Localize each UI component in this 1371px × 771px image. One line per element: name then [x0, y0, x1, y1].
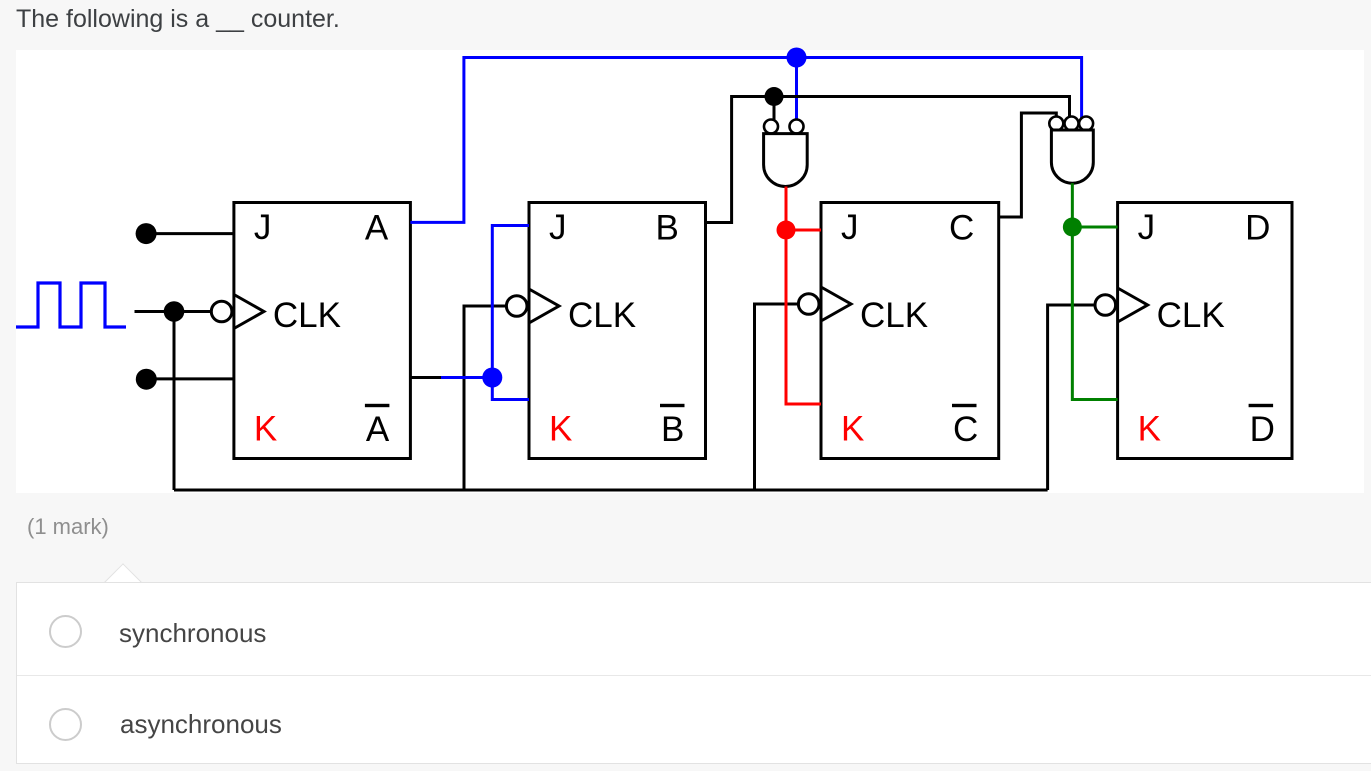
- node logic-1 terminal at U1 K: [136, 369, 157, 390]
- wire blue to U2 K: [492, 378, 529, 400]
- svg-text:B: B: [656, 209, 679, 248]
- wire blue drop to G1 input 2: [795, 58, 798, 120]
- node logic-1 terminal at U1 J: [136, 223, 157, 244]
- svg-text:J: J: [1138, 208, 1156, 247]
- svg-text:CLK: CLK: [860, 296, 928, 335]
- wire U1 K input: [146, 377, 234, 380]
- wire clock rail: [174, 489, 1048, 492]
- junction blue node top rail: [787, 48, 807, 68]
- wire A lower output (blue): [441, 376, 492, 379]
- svg-text:J: J: [841, 208, 859, 247]
- svg-text:D: D: [1250, 410, 1275, 449]
- AND gate G2: [1049, 117, 1093, 184]
- wire stub to G1 input 1: [773, 97, 776, 121]
- svg-text:J: J: [549, 208, 567, 247]
- svg-text:B: B: [661, 410, 684, 449]
- wire clock riser to U2 CLK: [464, 306, 506, 490]
- svg-text:D: D: [1245, 209, 1270, 248]
- svg-text:A: A: [365, 209, 389, 248]
- junction clock node: [164, 301, 185, 322]
- wire green to U4 K: [1072, 227, 1117, 400]
- svg-text:C: C: [953, 410, 978, 449]
- svg-text:A: A: [366, 410, 390, 449]
- svg-text:CLK: CLK: [273, 296, 341, 335]
- svg-text:K: K: [1138, 410, 1161, 449]
- wire A lower output stub: [410, 376, 441, 379]
- wire G2 output (green): [1071, 183, 1074, 227]
- wire G1 output (red): [785, 187, 788, 231]
- clock waveform: [16, 283, 126, 327]
- svg-text:C: C: [949, 209, 974, 248]
- wire U1 J input: [146, 232, 234, 235]
- junction black node B rail: [765, 87, 784, 106]
- wire C output to G2 input 1: [999, 113, 1057, 217]
- AND gate G1: [764, 120, 808, 187]
- svg-text:CLK: CLK: [568, 296, 636, 335]
- flip-flop U4 (D): [1095, 203, 1292, 459]
- svg-text:CLK: CLK: [1157, 296, 1225, 335]
- junction blue node at U2 input: [482, 368, 502, 388]
- svg-text:K: K: [841, 410, 864, 449]
- svg-text:K: K: [549, 410, 572, 449]
- wire B output to gate rail: [706, 97, 1070, 223]
- wire red to U3 K: [786, 230, 821, 404]
- wire clock riser to U3 CLK: [755, 304, 799, 490]
- flip-flop U1 (A): [211, 203, 410, 459]
- junction red node: [777, 221, 796, 240]
- wire A output riser and top rail (blue): [410, 58, 1081, 223]
- junction green node: [1063, 218, 1082, 237]
- svg-text:J: J: [254, 208, 272, 247]
- flip-flop U2 (B): [506, 203, 705, 459]
- wire clock rail drop: [173, 312, 176, 491]
- svg-text:K: K: [254, 410, 277, 449]
- wire red to U3 J: [786, 229, 821, 232]
- flip-flop U3 (C): [798, 203, 998, 459]
- wire green to U4 J: [1072, 226, 1117, 229]
- wire clock input to U1 CLK: [135, 310, 212, 313]
- wire blue to U2 J: [492, 226, 529, 378]
- wire clock riser to U4 CLK: [1048, 305, 1095, 490]
